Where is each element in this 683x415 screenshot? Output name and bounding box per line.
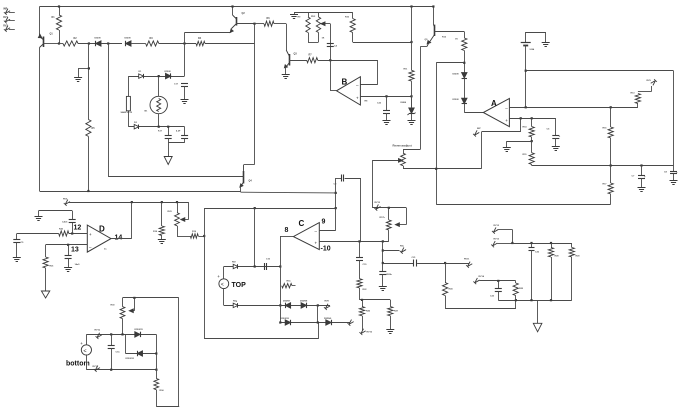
svg-text:D6B6: D6B6 [401,102,407,104]
svg-text:8: 8 [285,227,289,234]
svg-text:+: + [644,175,646,179]
svg-text:D5DN11: D5DN11 [135,329,144,331]
svg-text:TOP: TOP [232,282,247,289]
svg-text:1K: 1K [455,39,458,41]
svg-text:RV17: RV17 [93,366,99,368]
svg-text:14: 14 [115,235,123,242]
svg-text:B: B [342,78,348,87]
svg-text:9 B4: 9 B4 [530,48,535,51]
svg-text:D5DN: D5DN [125,38,131,40]
svg-text:D5DN12: D5DN12 [126,358,135,360]
svg-text:C4n5: C4n5 [62,221,68,224]
svg-text:R6g: R6g [233,301,238,303]
svg-text:INP: INP [477,128,481,130]
svg-text:R1b: R1b [287,281,292,283]
svg-text:R6f: R6f [232,262,236,264]
svg-text:13: 13 [71,247,79,254]
svg-text:SAMPLE12: SAMPLE12 [121,111,133,114]
svg-text:14n5: 14n5 [75,263,81,266]
svg-text:C: C [299,219,305,228]
svg-text:RV1: RV1 [3,16,8,19]
svg-text:C1b: C1b [116,352,121,354]
svg-text:INP: INP [3,8,7,11]
svg-text:D5DN: D5DN [165,71,171,73]
svg-text:+: + [505,118,508,123]
svg-text:Reverseadjust: Reverseadjust [393,144,412,148]
svg-text:D5DN: D5DN [453,74,459,76]
svg-text:D5DN9: D5DN9 [324,318,332,320]
svg-text:D5DN: D5DN [453,99,459,101]
svg-text:+: + [356,96,359,101]
svg-text:-10: -10 [321,246,331,253]
svg-text:+: + [676,171,678,175]
svg-text:A: A [491,99,497,108]
svg-text:+: + [217,274,220,279]
svg-text:RV1b: RV1b [95,330,101,332]
svg-text:<: < [221,282,224,288]
svg-text:+: + [315,241,318,246]
svg-text:1K: 1K [322,38,325,40]
svg-text:R20b: R20b [387,274,393,276]
svg-text:RV2: RV2 [3,25,8,28]
svg-text:D5DN7: D5DN7 [283,301,291,303]
svg-text:R17b: R17b [380,217,386,219]
svg-text:<: < [83,348,86,354]
svg-text:D5DN8: D5DN8 [300,301,308,303]
svg-text:+: + [80,341,83,346]
svg-text:+: + [89,232,92,237]
svg-text:RV13: RV13 [494,239,500,241]
svg-text:RV11: RV11 [464,259,470,261]
svg-text:D: D [99,225,105,234]
svg-text:RV16: RV16 [367,332,373,334]
svg-text:4.2F: 4.2F [176,130,181,133]
svg-text:+: + [559,134,561,138]
svg-text:D5DN: D5DN [95,38,101,40]
svg-text:RV14: RV14 [479,275,485,278]
svg-text:D5DN13: D5DN13 [281,318,290,320]
svg-text:RV12: RV12 [494,225,500,227]
svg-text:9: 9 [322,218,326,225]
svg-text:12: 12 [74,225,82,232]
svg-text:RV15: RV15 [375,202,381,204]
